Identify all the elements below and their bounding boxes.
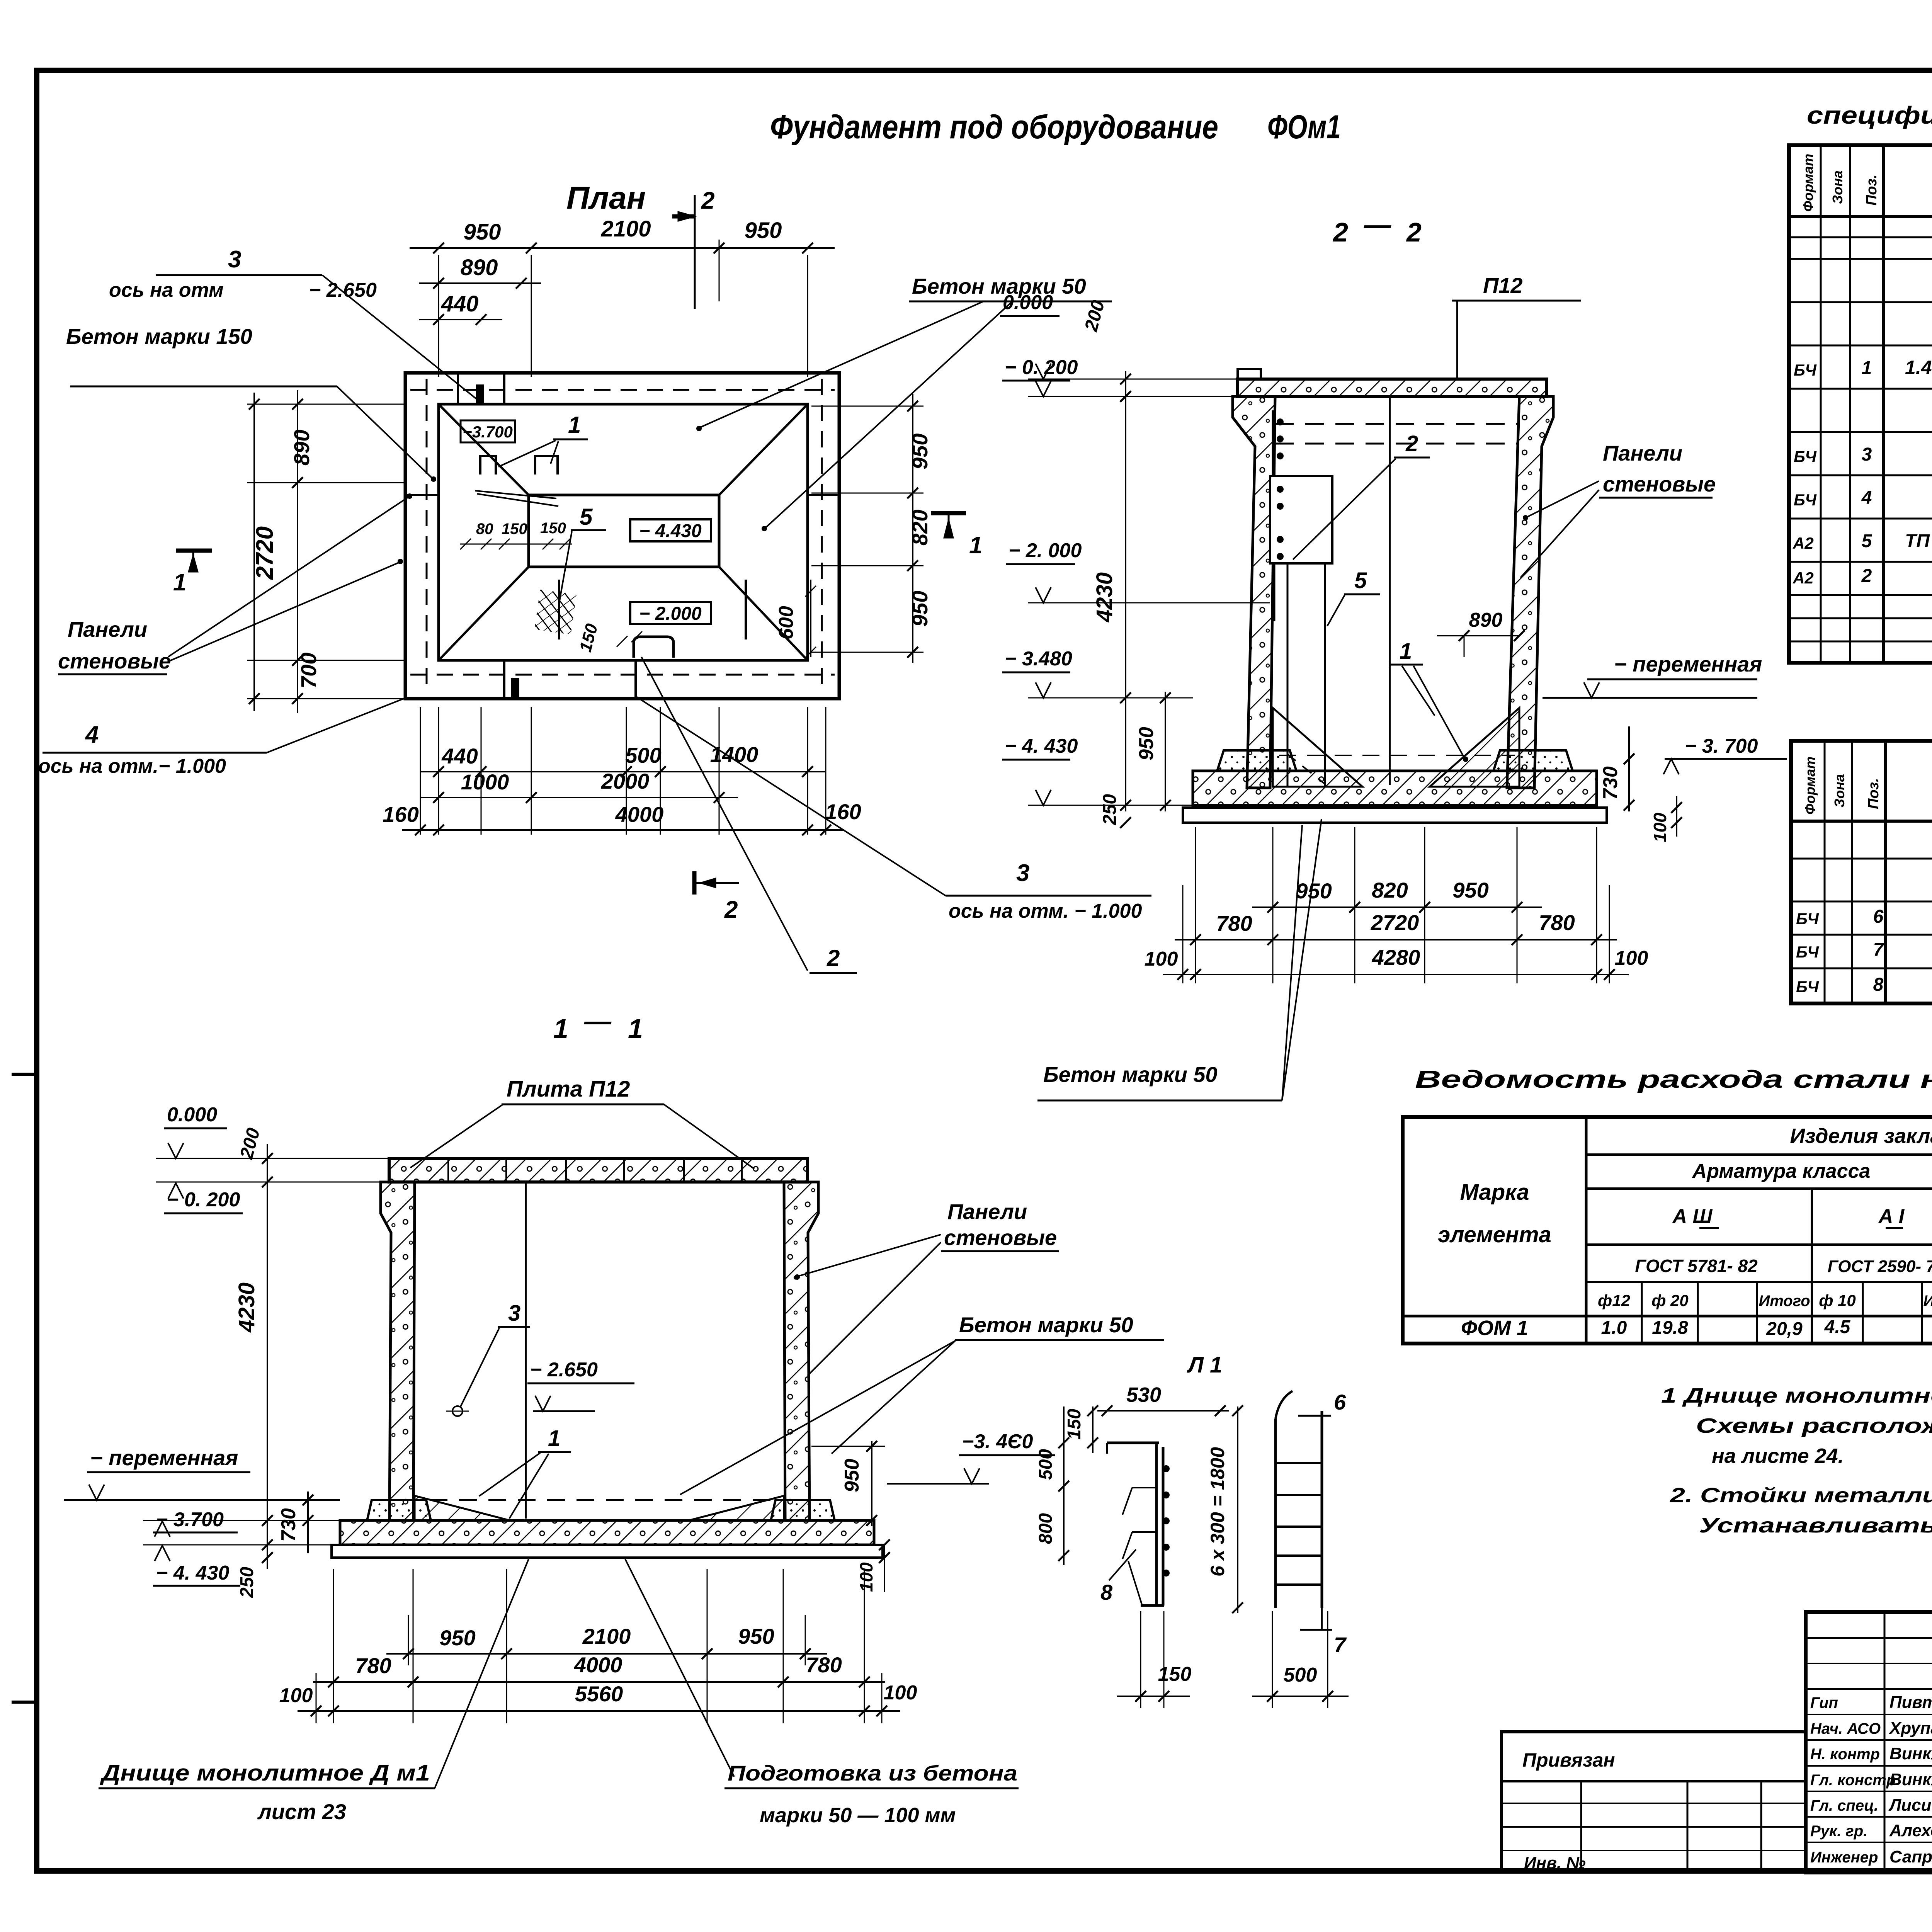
section 1-1 dim line 100 5560 100 (298, 1710, 900, 1712)
section 2-2 ground level line right (1543, 697, 1757, 699)
svg-text:80: 80 (476, 520, 493, 537)
ladder front view rails (1274, 1419, 1277, 1608)
ladder rung weld dots (1163, 1465, 1170, 1472)
section 2-2 right benching wedge (1430, 708, 1519, 787)
section 2-2 dim line 950 820 950 (1252, 906, 1542, 908)
plan leader terminal mark (476, 384, 484, 404)
plan hatched patch item 5 (534, 590, 577, 634)
plan bottom band panel joints (503, 660, 505, 699)
svg-text:Панели: Панели (68, 617, 147, 641)
ladder dim 500 bottom (1252, 1696, 1349, 1697)
svg-text:− 2.650: − 2.650 (309, 279, 377, 301)
svg-text:—: — (584, 1006, 612, 1036)
svg-text:890: 890 (1469, 609, 1503, 631)
svg-text:—: — (1364, 209, 1391, 240)
svg-text:2000: 2000 (601, 769, 650, 793)
ladder stringer bottom foot (1141, 1604, 1164, 1607)
svg-text:950: 950 (1135, 727, 1158, 760)
svg-text:2: 2 (1405, 431, 1418, 456)
svg-text:730: 730 (277, 1508, 300, 1542)
svg-text:2: 2 (1332, 217, 1348, 247)
section 2-2 centre line (1389, 396, 1391, 785)
svg-text:Винклер: Винклер (1889, 1744, 1932, 1763)
svg-text:1000: 1000 (461, 770, 509, 794)
svg-text:440: 440 (441, 291, 479, 316)
svg-text:Гл. констр.: Гл. констр. (1810, 1772, 1900, 1789)
svg-text:Ведомость расхода стали на: Ведомость расхода стали на элемент, кг (1415, 1065, 1932, 1093)
ladder dim 500 800 left chain (1063, 1406, 1065, 1565)
ladder hook details (1122, 1488, 1156, 1559)
svg-text:− 4.430: − 4.430 (639, 521, 702, 541)
svg-text:БЧ: БЧ (1796, 978, 1819, 996)
plan level box -3.700 (461, 420, 515, 442)
svg-text:А Ш: А Ш (1672, 1205, 1713, 1228)
svg-text:4000: 4000 (615, 802, 664, 827)
svg-text:− 0. 200: − 0. 200 (1005, 356, 1078, 379)
plan pit corner diagonal top-left (439, 404, 529, 495)
spec table 1 header bottom (1789, 215, 1932, 218)
plan left dimension chain 890 2720 700 (247, 404, 405, 405)
svg-text:ф12: ф12 (1598, 1291, 1630, 1310)
section 1-1 right benching wedge (690, 1496, 784, 1520)
title block left row lines (1806, 1637, 1932, 1639)
svg-text:950: 950 (841, 1459, 863, 1492)
svg-text:1.0: 1.0 (1601, 1318, 1627, 1338)
section 1-1 dim line 950 2100 950 (386, 1653, 827, 1655)
spec table 1 column lines (1820, 145, 1822, 663)
svg-text:А I: А I (1878, 1205, 1905, 1228)
plan pit corner diagonal bottom-right (719, 567, 808, 660)
svg-text:780: 780 (355, 1653, 391, 1678)
section 1-1 dashed line (430, 1499, 780, 1501)
plan section mark 2 bottom (692, 871, 697, 895)
svg-text:элемента: элемента (1438, 1222, 1551, 1247)
section 1-1 left wall panel (381, 1182, 415, 1520)
svg-text:8: 8 (1100, 1580, 1113, 1604)
svg-text:Нач. АСО: Нач. АСО (1810, 1720, 1881, 1737)
svg-text:4280: 4280 (1372, 945, 1420, 969)
section 2-2 left wall panel (1233, 396, 1275, 788)
svg-text:Зона: Зона (1830, 170, 1845, 204)
svg-text:ГОСТ 2590- 71✱: ГОСТ 2590- 71✱ (1828, 1257, 1932, 1276)
svg-text:Фундамент под оборудование: Фундамент под оборудование (770, 109, 1218, 146)
plan level box -2.000 (630, 602, 711, 624)
svg-text:− переменная: − переменная (1614, 652, 1762, 676)
section 2-2 embedded channel item 2 (1272, 410, 1276, 621)
svg-text:19.8: 19.8 (1652, 1318, 1688, 1338)
section 2-2 foundation base band (1193, 771, 1597, 805)
svg-text:100: 100 (1615, 947, 1648, 969)
section 2-2 bottom concrete prep plate (1183, 808, 1607, 823)
section 2-2 platform struts (1287, 563, 1289, 786)
svg-text:Бетон марки 150: Бетон марки 150 (66, 324, 252, 349)
plan top dimension extension lines (438, 255, 439, 377)
svg-text:−3.700: −3.700 (463, 423, 513, 441)
svg-text:4: 4 (1861, 488, 1872, 508)
title block left column lines (1884, 1612, 1886, 1872)
svg-text:Днище монолитное Д м1: Днище монолитное Д м1 (99, 1760, 430, 1786)
svg-text:− 2.650: − 2.650 (530, 1359, 598, 1381)
plan bottom extension lines (420, 707, 421, 835)
steel table data row line (1403, 1315, 1932, 1318)
ladder dim 530 (1097, 1410, 1229, 1412)
svg-text:3: 3 (1862, 444, 1872, 465)
section 1-1 right wall panel (784, 1182, 818, 1520)
svg-text:890: 890 (289, 430, 314, 466)
svg-text:100: 100 (856, 1562, 876, 1592)
svg-text:440: 440 (441, 744, 478, 768)
section 2-2 bottom extension lines (1195, 827, 1196, 983)
steel table gost dividers (1811, 1189, 1813, 1344)
plan lower platform edge lines (558, 580, 560, 639)
ladder dim 150 bottom (1117, 1696, 1190, 1697)
svg-text:Устанавливать во врем: Устанавливать во время бетонирования дни… (1699, 1514, 1932, 1537)
svg-text:100: 100 (1650, 813, 1670, 842)
svg-text:500: 500 (1036, 1449, 1056, 1480)
svg-text:стеновые: стеновые (944, 1225, 1057, 1250)
svg-text:250: 250 (237, 1567, 257, 1598)
svg-text:1: 1 (1400, 639, 1412, 664)
svg-text:2. Стойки металлической: 2. Стойки металлической площадки на, отм… (1670, 1484, 1932, 1507)
plan right band joint (808, 494, 839, 496)
svg-text:Рук. гр.: Рук. гр. (1810, 1823, 1867, 1840)
svg-text:100: 100 (1145, 948, 1178, 970)
svg-text:Н. контр: Н. контр (1810, 1746, 1880, 1763)
svg-text:2: 2 (701, 187, 714, 214)
svg-text:150: 150 (1158, 1663, 1192, 1685)
svg-text:1: 1 (548, 1426, 560, 1451)
svg-text:ось на отм.− 1.000: ось на отм.− 1.000 (38, 755, 226, 777)
svg-text:БЧ: БЧ (1794, 491, 1817, 509)
svg-text:Алехова: Алехова (1889, 1821, 1932, 1840)
section 1-1 top slab (389, 1158, 808, 1182)
svg-text:Формат: Формат (1802, 757, 1818, 815)
plan section mark 2 top (672, 214, 696, 219)
svg-text:150: 150 (1064, 1409, 1085, 1440)
svg-text:0.000: 0.000 (167, 1104, 217, 1126)
svg-text:950: 950 (1452, 878, 1488, 902)
title block outer box (1806, 1612, 1932, 1872)
svg-text:− 2. 000: − 2. 000 (1009, 539, 1082, 562)
steel table marka elementa column (1585, 1117, 1588, 1344)
plan bottom dimension line 440 500 1400 (421, 771, 825, 772)
svg-text:спецификация фундамента по: спецификация фундамента под -оборудовани… (1807, 101, 1932, 129)
svg-text:950: 950 (908, 434, 932, 469)
svg-text:− 0. 200: − 0. 200 (167, 1189, 240, 1211)
svg-text:780: 780 (806, 1653, 842, 1677)
svg-text:6: 6 (1334, 1390, 1346, 1414)
svg-text:Винклер: Винклер (1889, 1770, 1932, 1789)
svg-text:План: План (566, 180, 646, 216)
section 2-2 right socket block (1493, 750, 1573, 771)
section 1-1 left benching wedge (415, 1496, 509, 1520)
plan leader to item 2 label (641, 657, 808, 971)
svg-text:Итого: Итого (1923, 1293, 1932, 1310)
svg-text:950: 950 (464, 219, 501, 245)
svg-text:ось на отм: ось на отм (109, 279, 224, 301)
plan wall dashed centerlines (410, 389, 835, 391)
svg-text:780: 780 (1539, 910, 1575, 935)
svg-text:Бетон марки 50: Бетон марки 50 (959, 1313, 1133, 1337)
privyazan box (1502, 1732, 1806, 1872)
svg-text:4.5: 4.5 (1824, 1317, 1851, 1337)
spec table 1 row lines (1789, 236, 1932, 238)
svg-text:ф 10: ф 10 (1819, 1291, 1856, 1310)
svg-text:ФОм1: ФОм1 (1267, 109, 1341, 146)
svg-text:− 2.000: − 2.000 (639, 604, 702, 624)
svg-text:Арматура класса: Арматура класса (1692, 1160, 1871, 1182)
svg-text:160: 160 (383, 802, 418, 827)
plan left band joint (405, 494, 439, 496)
section 2-2 dim line 780 2720 780 (1175, 939, 1617, 940)
plan dimension line 440 (419, 319, 502, 320)
svg-text:ф 20: ф 20 (1651, 1291, 1689, 1310)
svg-text:Инженер: Инженер (1810, 1849, 1878, 1866)
svg-text:Поз.: Поз. (1866, 778, 1882, 810)
section 1-1 dim 100 right (884, 1546, 885, 1592)
section 2-2 dim 950 rotated (1165, 692, 1166, 811)
svg-text:Бетон марки 50: Бетон марки 50 (1043, 1062, 1218, 1087)
section 2-2 right wall panel (1507, 396, 1553, 788)
plan embed leader cluster (475, 491, 556, 498)
steel table armatura/prokat row line (1586, 1187, 1932, 1190)
svg-text:А2: А2 (1793, 569, 1814, 587)
plan top dimension line 950-2100-950 (410, 247, 835, 249)
ladder dim 150 left (1092, 1406, 1094, 1453)
svg-text:А2: А2 (1793, 534, 1814, 552)
svg-text:950: 950 (1296, 879, 1332, 903)
svg-text:950: 950 (439, 1626, 475, 1650)
svg-text:на листе 24.: на листе 24. (1712, 1444, 1844, 1468)
svg-text:4230: 4230 (1092, 572, 1117, 622)
svg-text:Хрупало: Хрупало (1888, 1719, 1932, 1738)
svg-text:− переменная: − переменная (90, 1446, 238, 1470)
section 2-2 dim 890 internal (1437, 635, 1519, 636)
svg-text:4230: 4230 (234, 1282, 259, 1333)
svg-text:1: 1 (628, 1014, 643, 1044)
privyazan box grid (1580, 1781, 1582, 1872)
plan pit corner diagonal top-right (719, 404, 808, 495)
svg-text:стеновые: стеновые (1603, 472, 1716, 496)
left edge registration marks (12, 1073, 37, 1076)
section 2-2 left chain 4230 (1125, 371, 1126, 811)
plan sump bracket (634, 637, 673, 658)
svg-text:950: 950 (908, 591, 932, 627)
svg-text:7: 7 (1334, 1633, 1347, 1657)
svg-text:3: 3 (1016, 860, 1029, 886)
svg-text:160: 160 (825, 799, 861, 824)
plan pit rectangle (529, 495, 719, 567)
svg-text:1: 1 (1862, 358, 1872, 378)
svg-text:530: 530 (1126, 1383, 1161, 1406)
svg-text:2720: 2720 (252, 526, 278, 580)
svg-text:890: 890 (461, 255, 498, 280)
svg-text:5: 5 (1862, 531, 1872, 551)
steel table phi row line (1586, 1281, 1932, 1283)
svg-text:1400: 1400 (710, 742, 759, 767)
spec table 2 row lines (1791, 858, 1932, 860)
plan inner wall rectangle (439, 404, 808, 660)
svg-text:Панели: Панели (1603, 441, 1682, 465)
svg-text:2: 2 (724, 896, 738, 923)
section 2-2 bottom dashed line (1279, 755, 1515, 756)
svg-text:ось на отм. − 1.000: ось на отм. − 1.000 (949, 900, 1142, 922)
svg-text:Лисичкин: Лисичкин (1888, 1796, 1932, 1815)
svg-text:− 4. 430: − 4. 430 (156, 1562, 229, 1584)
section 2-2 dim 730 right (1628, 726, 1630, 811)
section 2-2 slab left lip (1238, 369, 1261, 379)
svg-text:Зона: Зона (1832, 774, 1847, 808)
svg-text:1: 1 (969, 532, 982, 559)
svg-text:Изделия закладные: Изделия закладные (1790, 1124, 1932, 1148)
svg-text:Гип: Гип (1810, 1694, 1838, 1711)
plan bottom dimension line 1000 2000 (421, 797, 738, 798)
svg-text:2720: 2720 (1371, 910, 1419, 935)
svg-text:П12: П12 (1483, 273, 1523, 298)
spec table 2 columns (1824, 741, 1826, 1003)
svg-text:150: 150 (540, 520, 566, 537)
svg-text:1: 1 (568, 412, 581, 438)
svg-text:ГОСТ 5781- 82: ГОСТ 5781- 82 (1635, 1256, 1758, 1276)
plan black mark on bottom band (511, 678, 519, 697)
plan outer wall rectangle (405, 373, 839, 699)
section 2-2 left benching wedge (1273, 708, 1362, 787)
svg-text:стеновые: стеновые (58, 649, 171, 673)
plan pit corner diagonal bottom-left (439, 567, 529, 660)
section 1-1 right socket block (771, 1500, 835, 1520)
section 1-1 dim line 780 4000 780 (313, 1681, 885, 1683)
svg-text:Итого: Итого (1759, 1293, 1810, 1310)
section 2-2 anchor dots (1277, 418, 1284, 425)
svg-text:5: 5 (1354, 568, 1367, 593)
section 2-2 dashed top lines (1275, 423, 1519, 425)
plan embed marks item 1 (480, 456, 496, 474)
svg-text:БЧ: БЧ (1794, 447, 1817, 466)
svg-text:820: 820 (908, 510, 932, 546)
svg-text:5560: 5560 (575, 1682, 623, 1706)
section 1-1 centre line (525, 1182, 527, 1519)
plan top band panel joints (457, 373, 459, 404)
svg-text:Поз.: Поз. (1864, 175, 1880, 206)
section 2-2 top slab P12 (1238, 379, 1547, 396)
plan level box -4.430 (630, 519, 711, 541)
svg-text:6 x 300 = 1800: 6 x 300 = 1800 (1207, 1447, 1228, 1577)
svg-text:Марка: Марка (1460, 1180, 1529, 1205)
svg-text:730: 730 (1599, 766, 1622, 800)
section 1-1 dim 730 (307, 1492, 309, 1553)
svg-text:500: 500 (1284, 1664, 1317, 1686)
section 1-1 left socket block (367, 1500, 431, 1520)
svg-text:250: 250 (1100, 794, 1120, 825)
svg-text:марки 50 — 100 мм: марки 50 — 100 мм (760, 1804, 956, 1827)
svg-text:4: 4 (85, 721, 99, 748)
svg-text:БЧ: БЧ (1796, 910, 1819, 928)
steel table phi row dividers (1641, 1282, 1643, 1344)
svg-text:ТП: ТП (1905, 531, 1930, 551)
svg-text:2: 2 (827, 945, 840, 971)
steel table gost row line (1586, 1243, 1932, 1246)
svg-text:Плита П12: Плита П12 (507, 1077, 630, 1102)
svg-text:БЧ: БЧ (1794, 361, 1817, 379)
spec table 1 outer box (1789, 145, 1932, 663)
section 2-2 metal platform item 5 (1270, 476, 1332, 563)
svg-text:950: 950 (738, 1624, 774, 1648)
svg-text:500: 500 (625, 743, 661, 767)
svg-text:2: 2 (1406, 217, 1422, 247)
section 1-1 slab joints (447, 1158, 449, 1182)
svg-text:5: 5 (580, 504, 593, 530)
svg-text:ФОМ 1: ФОМ 1 (1461, 1316, 1528, 1340)
svg-text:−3. 4Є0: −3. 4Є0 (962, 1430, 1033, 1453)
plan bottom dimension line 160 4000 160 (402, 829, 844, 831)
svg-text:Привязан: Привязан (1522, 1749, 1615, 1771)
svg-text:− 4. 430: − 4. 430 (1005, 735, 1078, 757)
svg-text:Гл. спец.: Гл. спец. (1810, 1797, 1878, 1814)
section 1-1 chain 4230 (267, 1198, 268, 1520)
svg-text:лист 23: лист 23 (257, 1799, 346, 1824)
section 2-2 dim line 100 4280 100 (1163, 974, 1629, 975)
svg-text:− 3.480: − 3.480 (1005, 648, 1072, 670)
plan section mark 1 right (931, 511, 966, 515)
ladder front view rungs (1276, 1462, 1322, 1464)
svg-text:6: 6 (1873, 906, 1884, 927)
svg-text:Бетон марки 50: Бетон марки 50 (912, 274, 1086, 298)
svg-text:Инв. №: Инв. № (1524, 1854, 1586, 1872)
svg-text:4000: 4000 (574, 1653, 622, 1677)
ladder stringer profile (1107, 1442, 1159, 1444)
svg-text:Схемы расположения пане: Схемы расположения панелей стен и плит п… (1696, 1414, 1932, 1437)
svg-text:600: 600 (775, 606, 798, 639)
svg-text:1 Днище монолитное Д: 1 Днище монолитное Дм1 смотреть на листе… (1661, 1384, 1932, 1407)
svg-text:820: 820 (1372, 878, 1408, 902)
svg-text:Панели: Панели (947, 1199, 1027, 1224)
svg-text:800: 800 (1036, 1513, 1056, 1544)
svg-text:780: 780 (1216, 911, 1252, 935)
svg-text:Формат: Формат (1800, 154, 1816, 212)
section 2-2 dim 100 right (1676, 796, 1677, 837)
section 1-1 bottom prep plate (332, 1545, 883, 1558)
svg-text:3: 3 (228, 246, 241, 273)
plan right dimension chain 950-820-950 (811, 406, 923, 407)
svg-text:700: 700 (296, 653, 321, 689)
svg-text:Пивторак: Пивторак (1889, 1693, 1932, 1712)
svg-text:2: 2 (1861, 566, 1872, 586)
section 1-1 bottom extension lines (333, 1569, 334, 1723)
steel table outer box (1403, 1117, 1932, 1344)
svg-text:1: 1 (553, 1014, 568, 1044)
svg-text:1.400- 6/76 Вып1 лист 90: 1.400- 6/76 Вып1 лист 90 (1905, 357, 1932, 378)
svg-text:3: 3 (508, 1301, 520, 1326)
svg-text:2100: 2100 (582, 1624, 631, 1648)
svg-text:БЧ: БЧ (1796, 943, 1819, 961)
svg-text:2100: 2100 (600, 216, 651, 241)
svg-text:950: 950 (745, 218, 782, 243)
svg-text:100: 100 (279, 1684, 313, 1707)
svg-text:1: 1 (173, 569, 186, 596)
steel table izdeliya row line (1586, 1153, 1932, 1156)
section 1-1 base band (340, 1520, 874, 1545)
ladder dim 6x300=1800 (1237, 1406, 1238, 1613)
spec table 2 header bottom (1791, 820, 1932, 823)
svg-text:20,9: 20,9 (1766, 1319, 1803, 1339)
svg-text:Л 1: Л 1 (1187, 1352, 1222, 1378)
svg-text:Сапрошина: Сапрошина (1889, 1847, 1932, 1866)
svg-text:100: 100 (884, 1682, 917, 1704)
svg-text:Подготовка из бетона: Подготовка из бетона (728, 1761, 1017, 1785)
svg-text:150: 150 (502, 520, 527, 537)
section 1-1 dim 950 right (871, 1441, 872, 1526)
svg-text:− 3. 700: − 3. 700 (1685, 735, 1758, 757)
